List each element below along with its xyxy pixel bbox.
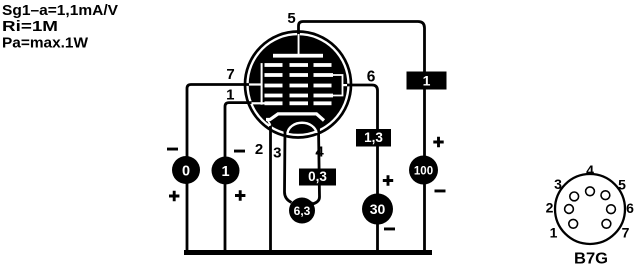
pin6 exit line (white) (343, 84, 348, 86)
wire pin5 anode to top-right rail (299, 22, 425, 251)
svg-text:1,3: 1,3 (364, 130, 383, 145)
svg-text:1: 1 (221, 164, 229, 180)
svg-text:Pa=max.1W: Pa=max.1W (2, 35, 89, 52)
svg-text:Sg1–a=1,1mA/V: Sg1–a=1,1mA/V (2, 2, 118, 19)
svg-text:0,3: 0,3 (308, 169, 327, 184)
anode lead (white) (298, 34, 300, 54)
B7G pin 4 hole (586, 187, 595, 196)
wire pin4 heater to 6,3 source (311, 128, 320, 204)
pin7 entry line (white) (249, 83, 261, 85)
source 100 (anode supply) (409, 156, 438, 185)
svg-text:B7G: B7G (574, 251, 608, 268)
svg-text:6,3: 6,3 (294, 204, 311, 218)
wire pin2 cathode to bus (269, 126, 272, 250)
current box 1,3 (screen current) (356, 129, 391, 147)
grid row 1 dashes (265, 63, 332, 67)
plus sign for source 30 (383, 175, 393, 185)
minus sign for source 100 (435, 190, 446, 193)
svg-text:5: 5 (287, 10, 295, 27)
svg-text:1: 1 (423, 72, 431, 88)
cathode to pin2 link (white) (268, 120, 271, 125)
svg-text:3: 3 (554, 176, 562, 192)
svg-text:6: 6 (626, 200, 634, 216)
tube V1 envelope outline (245, 32, 351, 138)
cathode K (white) (266, 114, 324, 121)
svg-text:5: 5 (618, 177, 626, 193)
svg-text:1: 1 (226, 87, 234, 104)
meter M2 value 1 (grid voltage) (212, 157, 240, 185)
heater arc (white) (288, 123, 317, 133)
pin1 entry line (white) (252, 102, 266, 104)
grid row 3 dashes (265, 84, 332, 88)
B7G pin 6 hole (607, 205, 616, 214)
B7G pin 1 hole (569, 219, 578, 228)
B7G pin 3 hole (570, 192, 579, 201)
svg-text:4: 4 (586, 162, 594, 178)
plus sign for source 100 (433, 137, 443, 147)
wire pin7 to 0 meter (187, 85, 249, 251)
svg-text:4: 4 (315, 144, 324, 161)
svg-text:2: 2 (546, 200, 554, 216)
tube V1 inner disc (249, 35, 348, 134)
B7G pin 5 hole (601, 191, 610, 200)
wire pin3 heater to 6,3 source (285, 128, 292, 203)
plus sign for meter M2 (235, 190, 245, 200)
source 6,3 (heater supply) (289, 198, 315, 224)
minus sign for meter M1 (167, 148, 178, 151)
anode A bar (white) (273, 54, 323, 58)
grid left rail (white) (261, 63, 263, 105)
source 30 (screen supply) (362, 194, 393, 225)
meter M1 value 0 (grid voltage) (172, 156, 200, 184)
current box 1 (anode current) (407, 72, 447, 90)
minus sign for meter M2 (234, 150, 245, 153)
grid row 5 dashes (265, 101, 332, 105)
B7G base outline (555, 174, 625, 244)
wire pin6 screen grid to 1,3 box and 30 meter (346, 85, 378, 250)
svg-text:30: 30 (370, 201, 386, 217)
B7G pin 2 hole (565, 205, 574, 214)
svg-text:100: 100 (414, 166, 433, 178)
minus sign for source 30 (384, 228, 395, 231)
screen grid right bracket (white) (332, 75, 343, 96)
svg-text:0: 0 (182, 163, 190, 179)
B7G pin 7 hole (602, 219, 611, 228)
plus sign for meter M1 (169, 191, 179, 201)
svg-text:3: 3 (273, 145, 281, 162)
svg-text:6: 6 (367, 69, 376, 86)
svg-text:7: 7 (622, 225, 630, 241)
svg-text:2: 2 (255, 141, 263, 158)
svg-text:1: 1 (550, 225, 558, 241)
current box 0,3 (heater current) (299, 169, 336, 186)
svg-text:7: 7 (226, 66, 234, 83)
ground bus (184, 250, 432, 255)
grid row 4 dashes (265, 94, 334, 98)
grid row 2 dashes (265, 73, 334, 77)
svg-text:Ri=1M: Ri=1M (2, 18, 58, 35)
wire pin1 control grid to 1 meter (225, 103, 252, 250)
